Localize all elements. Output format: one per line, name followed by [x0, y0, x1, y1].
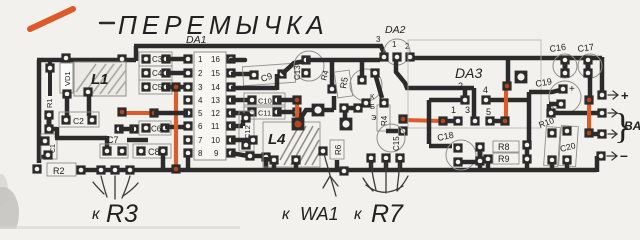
bottom bus right corner up wire	[595, 156, 600, 172]
hand arrow R3 shaft 2	[114, 176, 116, 199]
wire pin5 link	[492, 119, 501, 124]
wire L4 bm to bus	[294, 162, 299, 168]
pad DA1 pin 4	[183, 95, 192, 104]
transistor VT1 circle	[350, 69, 382, 101]
pad VD1 bottom	[62, 89, 71, 98]
pad R3 feed 1	[96, 165, 105, 174]
wire DA1 pin12 to C11	[231, 111, 252, 116]
pad DA3 isolated big	[515, 71, 528, 84]
pad jumper orange right	[438, 116, 447, 125]
resistor R4 second outline	[377, 105, 390, 131]
pad VT b	[370, 68, 379, 77]
wire L1 pad to C2 right pad	[87, 94, 92, 116]
wire C10 to jumper pad	[277, 98, 297, 103]
svg-text:+: +	[569, 84, 575, 95]
svg-text:ПЕРЕМЫЧКА: ПЕРЕМЫЧКА	[118, 10, 329, 40]
pad DA3 pin1	[453, 116, 462, 125]
capacitor C4 outline	[139, 66, 172, 80]
pad R7 feed 3	[395, 153, 404, 162]
hand arrow R3 flank left	[93, 182, 104, 194]
pad bus stem a	[522, 154, 531, 163]
pad DA1 pin 10	[226, 135, 235, 144]
svg-text:4: 4	[483, 85, 488, 95]
pad C8 left	[136, 146, 145, 155]
wire C18 right to bus	[478, 163, 483, 168]
pad DA2 pin2	[405, 52, 414, 61]
wire pad pair	[119, 127, 134, 132]
wire R4 vertical	[330, 60, 335, 85]
pad DA1 pin 16	[226, 54, 235, 63]
pad jumper orange top	[584, 95, 593, 104]
pad R7 feed 1	[366, 153, 375, 162]
pad C16 top	[560, 55, 569, 64]
pad below bar	[44, 124, 53, 133]
pad DA3 pin3	[470, 116, 479, 125]
svg-text:11: 11	[211, 122, 220, 131]
capacitor C12 outline	[239, 111, 254, 151]
pad C18 right bottom	[475, 156, 484, 165]
pad C9 left	[249, 70, 258, 79]
IC DA1 outline	[194, 52, 226, 160]
pad jumper top orange	[171, 82, 180, 91]
svg-text:R6: R6	[334, 144, 343, 155]
legend dash	[100, 22, 114, 24]
pad jumper orange bottom	[584, 128, 593, 137]
pad C11 left	[247, 107, 256, 116]
pad L4 right side	[318, 146, 327, 155]
svg-text:5: 5	[198, 109, 203, 118]
hand arrow R7 shaft 2	[385, 163, 387, 193]
arrow output plus	[608, 91, 618, 99]
pad output BA top	[597, 108, 606, 117]
pad R10 bottom	[547, 155, 556, 164]
wire C17 down to jumper	[588, 75, 593, 96]
pad DA1 pin 11	[226, 121, 235, 130]
IC DA3 boundary box	[408, 40, 541, 128]
pad C11 right	[272, 107, 281, 116]
hand arrow R3 shaft 3	[122, 176, 130, 198]
board outline top-middle bus wire	[134, 46, 384, 53]
board outline top-left wire	[37, 58, 136, 63]
jumper wire orange right	[587, 101, 591, 132]
svg-text:1: 1	[198, 55, 203, 64]
svg-text:7: 7	[198, 136, 203, 145]
wire pad bar	[47, 117, 52, 128]
resistor R6 outline	[330, 140, 344, 159]
pad C19 plus	[558, 84, 567, 93]
svg-text:C2: C2	[73, 116, 84, 126]
svg-text:C11: C11	[258, 109, 271, 118]
pad bus stem b	[483, 154, 492, 163]
hand arrow R7 shaft 3	[397, 163, 400, 190]
pad C12 top	[241, 113, 250, 122]
capacitor C9 outline	[242, 63, 295, 86]
pad DA1 pin 1	[183, 54, 192, 63]
wire C13 to DA2 top trace	[306, 58, 380, 63]
svg-text:6: 6	[198, 122, 203, 131]
wire VT b down to R4b	[376, 77, 382, 98]
resistor R9 outline and label	[493, 153, 519, 164]
pad DA3 pin4	[481, 95, 490, 104]
pad DA1 pin 2	[183, 68, 192, 77]
svg-text:WA1: WA1	[300, 204, 339, 224]
svg-text:–: –	[620, 147, 628, 163]
transistor DA2 circle	[384, 39, 410, 65]
pad C10 right	[272, 95, 281, 104]
pad bus left end	[32, 164, 41, 173]
capacitor C19 circle	[549, 81, 581, 113]
pad DA3 pin5	[485, 116, 494, 125]
pad DA1 pin 7	[183, 135, 192, 144]
svg-text:L1: L1	[91, 71, 109, 88]
pad on bus WA1	[339, 166, 348, 175]
wire stem b	[486, 161, 491, 168]
pad R3 feed 2	[110, 165, 119, 174]
pad R7 feed 2	[381, 153, 390, 162]
pad C11 end	[292, 107, 301, 116]
svg-text:R1: R1	[45, 98, 54, 108]
arrow output minus	[607, 152, 617, 160]
diode VD1	[60, 63, 73, 93]
wire corner vertical	[527, 92, 532, 145]
capacitor C8 outline	[133, 144, 171, 158]
pad on top edge (L1)	[117, 54, 126, 63]
resistor R5 outline	[334, 70, 352, 98]
pad VT d	[339, 103, 348, 112]
svg-text:Э: Э	[371, 113, 377, 122]
svg-text:VD1: VD1	[63, 71, 72, 86]
pad on top edge	[61, 53, 70, 62]
pad output minus	[596, 151, 605, 160]
svg-text:DA1: DA1	[186, 34, 206, 46]
outline riser wire	[134, 46, 139, 61]
wire C8 to bus	[161, 153, 166, 168]
svg-text:R9: R9	[498, 154, 510, 164]
arrow output BA top	[608, 109, 617, 117]
svg-text:5: 5	[486, 107, 491, 117]
pad C1 bottom	[43, 150, 52, 159]
svg-text:C3: C3	[152, 55, 163, 64]
svg-text:3: 3	[198, 83, 203, 92]
wire C18 right pads bar	[478, 149, 483, 159]
capacitor C3 outline	[139, 52, 172, 66]
pad DA1 pin 14	[226, 82, 235, 91]
capacitor C13 circle	[294, 51, 324, 81]
wire C4 to DA1	[166, 71, 188, 76]
svg-text:C8: C8	[148, 147, 160, 157]
pad C13 top	[301, 55, 310, 64]
pad output plus	[597, 90, 606, 99]
capacitor C18 circle	[446, 140, 476, 170]
svg-text:2: 2	[405, 42, 410, 51]
pad C6 right	[160, 123, 169, 132]
pad C20 top	[562, 126, 571, 135]
wire C17 bar	[586, 62, 591, 71]
svg-text:C10: C10	[258, 97, 272, 106]
wire DA1 pin10 stub	[231, 138, 250, 143]
pad DA1 pin 6	[183, 121, 192, 130]
pad C3 right	[161, 54, 170, 63]
pad C2 left	[61, 115, 70, 124]
hand arrow WA1 shaft	[324, 154, 336, 196]
svg-text:+: +	[621, 88, 629, 103]
wire L4 trace top	[299, 96, 334, 121]
capacitor C2 outline	[59, 112, 99, 127]
pad pin10 end	[248, 135, 257, 144]
pad R3 feed 3	[125, 165, 134, 174]
svg-text:C5: C5	[152, 83, 163, 92]
svg-text:8: 8	[198, 149, 203, 158]
svg-text:14: 14	[211, 83, 220, 92]
pad jumper orange top	[502, 81, 511, 90]
svg-text:C15: C15	[392, 136, 401, 151]
wire DA1 pin14 up to C9 right	[231, 74, 277, 90]
capacitor C17 circle	[578, 54, 602, 78]
inductor L4 body	[263, 122, 320, 167]
pad junction	[546, 108, 555, 117]
jumper wire orange to L4 pad	[295, 100, 299, 122]
pad C13 bottom	[301, 68, 310, 77]
wire pin4 to corner	[490, 98, 529, 103]
wire C6 to DA1 pin6	[165, 125, 188, 130]
wire R6 to bus	[335, 160, 340, 168]
wire corner to C19	[529, 90, 560, 92]
svg-text:К: К	[370, 92, 375, 101]
svg-text:C7: C7	[107, 135, 119, 145]
pad C1 top	[40, 136, 49, 145]
wire VT pads link	[344, 108, 358, 120]
svg-text:C4: C4	[152, 69, 163, 78]
svg-text:3: 3	[376, 35, 381, 44]
pad L4 bottom-mid	[291, 155, 300, 164]
capacitor C15 circle	[377, 124, 405, 152]
svg-text:9: 9	[214, 149, 219, 158]
capacitor C6 outline	[139, 121, 171, 135]
pad R4 end	[327, 84, 336, 93]
wire pin1 to jumper pad	[447, 119, 454, 124]
pad jumper bottom orange	[171, 164, 180, 173]
wire jumper pad to DA1 pin5	[154, 111, 188, 116]
pad VT c	[361, 98, 370, 107]
svg-text:L4: L4	[268, 131, 286, 148]
pad C8 right	[158, 146, 167, 155]
pad C16 bottom	[560, 68, 569, 77]
svg-text:R7: R7	[371, 200, 404, 228]
pad C6 left	[141, 123, 150, 132]
wire R7 feed 1 to bus	[369, 160, 374, 168]
wire C20 to bus	[565, 162, 570, 168]
board outline top-right bus wire	[412, 56, 602, 61]
wire VT collector stub	[360, 62, 365, 77]
pad L4 right big	[312, 104, 325, 117]
pad DA2 pin3	[379, 52, 388, 61]
capacitor C5 outline	[139, 80, 172, 94]
pad C9 right	[277, 69, 286, 78]
pad C10 left	[247, 95, 256, 104]
pad C4 left	[141, 68, 150, 77]
wire VD1 to C2	[65, 96, 70, 117]
right bus corner down wire	[600, 57, 605, 93]
wire C9 to C13	[282, 61, 306, 74]
pad DA1 pin 3	[183, 82, 192, 91]
wire DA1 pin16 stub	[231, 58, 245, 63]
jumper wire orange vertical at C5	[174, 88, 178, 169]
pad L4 bottom-left	[269, 155, 278, 164]
svg-text:1: 1	[451, 105, 456, 115]
pad R10 top	[547, 128, 556, 137]
svg-text:16: 16	[211, 55, 220, 64]
svg-text:Б: Б	[370, 102, 375, 111]
hand arrow R3 shaft 1	[101, 176, 107, 197]
pad C19 minus	[556, 99, 565, 108]
pad R4b top	[379, 98, 388, 107]
wire BA third row link	[591, 132, 600, 137]
wire R7 feed 3 to bus	[398, 160, 403, 168]
pad pin9 a	[245, 151, 254, 160]
resistor R10 outline	[544, 127, 561, 167]
board outline left edge wire	[37, 60, 42, 163]
pad pin9 b	[261, 152, 270, 161]
pad VT a	[357, 75, 366, 84]
pad R1 bottom	[44, 110, 53, 119]
hand arrow R7 shaft 1	[371, 163, 376, 190]
wire C19 minus to junction	[549, 104, 558, 112]
svg-text:BA: BA	[624, 119, 640, 133]
wire corner pad to bus	[525, 147, 530, 168]
pad C17 bottom	[583, 68, 592, 77]
svg-text:R2: R2	[53, 166, 65, 176]
pad DA2 pin1	[392, 52, 401, 61]
pad C3 left	[141, 54, 150, 63]
resistor R8 outline and label	[493, 141, 519, 152]
inductor L1 body	[74, 62, 126, 96]
pad DA1 pin 13	[226, 95, 235, 104]
pad big mid	[340, 118, 353, 131]
pad C5 left	[141, 82, 150, 91]
svg-text:12: 12	[211, 109, 220, 118]
legend: orange jumper sample stroke	[30, 9, 73, 29]
hand arrow R7 curve	[366, 185, 403, 192]
capacitor C16 circle	[553, 54, 577, 78]
wire C3 to DA1	[166, 57, 188, 62]
wire C18 bottom link	[462, 160, 476, 165]
jumper wire orange horizontal to DA3	[403, 120, 442, 121]
pad DA3 pin2	[460, 95, 469, 104]
wire DA1 pin11 to C12	[231, 120, 243, 126]
wire bus T down to jumper	[506, 60, 511, 82]
capacitor C20 outline	[559, 125, 579, 166]
wire top pad chain R1	[48, 61, 52, 96]
wire pin2 stub up	[463, 89, 468, 97]
pad jumper orange bottom	[500, 116, 509, 125]
pad C4 right	[161, 68, 170, 77]
wire corner chain to C7	[52, 127, 107, 148]
pad bus resume	[76, 165, 85, 174]
pad output BA bottom	[597, 129, 606, 138]
pad C18 top	[453, 143, 462, 152]
wire C11 right stub	[277, 110, 293, 115]
pad L1 bottom-left	[83, 87, 92, 96]
pad C17 top	[583, 55, 592, 64]
svg-text:C13: C13	[293, 65, 302, 80]
wire C5 to DA1	[166, 85, 188, 90]
wire DA1 pin15 to C9	[231, 72, 254, 77]
capacitor C7 outline	[100, 144, 128, 158]
svg-text:2: 2	[458, 81, 463, 91]
wire R4b bottom link	[386, 129, 398, 134]
pad C5 right	[161, 82, 170, 91]
jumper wire orange vertical DA3	[504, 87, 508, 120]
svg-text:C6: C6	[151, 125, 162, 134]
svg-text:1: 1	[392, 40, 397, 49]
pad C12 bottom	[241, 140, 250, 149]
pad DA1 pin 5	[183, 108, 192, 117]
pad C18 right top	[475, 142, 484, 151]
pad corner mid	[522, 140, 531, 149]
wire L4 bl to bus	[272, 162, 277, 168]
svg-text:3: 3	[465, 105, 470, 115]
wire R7 feed 2 to bus	[384, 160, 389, 168]
svg-text:2: 2	[198, 69, 203, 78]
svg-text:DA3: DA3	[455, 65, 482, 81]
pad C18 bottom	[453, 157, 462, 166]
svg-text:R3: R3	[106, 200, 138, 228]
pad DA1 pin 9	[226, 148, 235, 157]
svg-text:R8: R8	[498, 142, 510, 152]
pad C7 right	[117, 146, 126, 155]
pad DA1 pin 8	[183, 148, 192, 157]
svg-text:4: 4	[198, 96, 203, 105]
arrow output BA bottom	[608, 130, 617, 138]
svg-text:10: 10	[211, 136, 220, 145]
svg-text:13: 13	[211, 96, 220, 105]
wire BA mid row	[554, 111, 600, 116]
wire DA1 pin13 to C10	[231, 98, 252, 103]
pad DA1 pin 12	[226, 108, 235, 117]
wire DA1 pin8 to bus	[186, 155, 191, 168]
wire pin9 to bus	[264, 157, 269, 168]
hand arrow R7 flank left	[363, 178, 373, 191]
svg-text:R5: R5	[338, 76, 350, 89]
pad C2 right	[87, 115, 96, 124]
pad R1 top	[45, 63, 54, 72]
pad jumper right orange	[149, 108, 158, 117]
wire short trace under C7	[127, 138, 148, 143]
wire DA2 pin3 descending to DA3	[396, 61, 474, 117]
pad C7 left	[102, 146, 111, 155]
pad L4 big top	[292, 118, 305, 131]
svg-text:DA2: DA2	[385, 24, 406, 36]
pad jumper orange top	[292, 95, 301, 104]
hand arrow R7 flank right	[397, 176, 408, 191]
bottom ground bus wire	[81, 168, 597, 173]
resistor R2 outline and label	[47, 163, 76, 176]
wire C16 bar	[563, 62, 568, 71]
pad VT e	[353, 103, 362, 112]
pad C20 bottom	[562, 155, 571, 164]
wire DA1 pin9 stub	[231, 153, 264, 156]
hand arrow R3 flank right	[123, 183, 138, 196]
capacitor C11 outline	[244, 105, 285, 119]
pad R4b bottom end	[398, 126, 407, 135]
hand arrow WA1 head	[323, 176, 338, 188]
capacitor C10 outline	[244, 93, 285, 107]
pad jumper left orange	[117, 107, 126, 116]
wire R10 to bus	[550, 162, 555, 168]
pad jumper orange left	[398, 114, 407, 123]
pad pair left of C6	[114, 124, 123, 133]
capacitor C1 outline	[41, 134, 57, 159]
